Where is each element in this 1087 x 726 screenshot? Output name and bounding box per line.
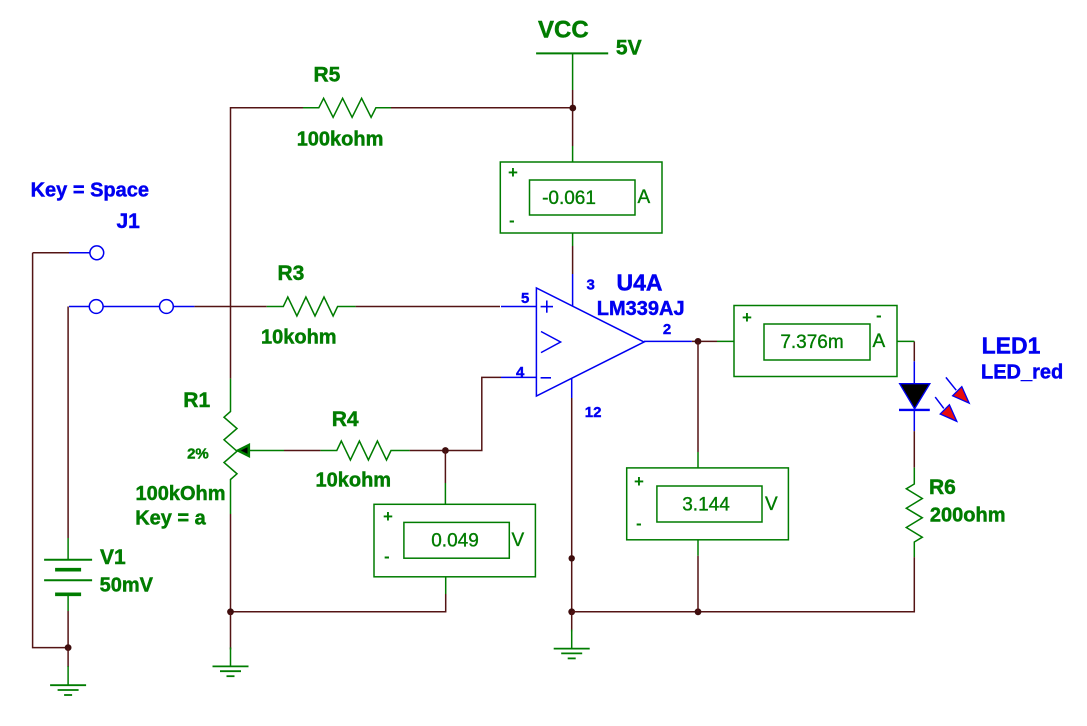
wire ammeter U2 right corner down to LED bbox=[913, 341, 915, 361]
svg-text:-: - bbox=[384, 547, 390, 566]
wire V1 bottom to ground junction bbox=[67, 611, 69, 648]
ammeter M1 -0.061 A bbox=[500, 146, 662, 246]
svg-text:R6: R6 bbox=[929, 476, 956, 499]
battery V1 50mV bbox=[44, 538, 154, 611]
svg-text:V: V bbox=[765, 494, 778, 515]
ammeter M4 7.376m A bbox=[717, 306, 914, 377]
wire LED cathode to R6 bbox=[913, 431, 915, 468]
svg-text:R5: R5 bbox=[314, 64, 341, 87]
wire J1 lower-left pole down to V1 bbox=[67, 307, 69, 539]
node V1 ground junction bbox=[65, 644, 72, 651]
svg-text:+: + bbox=[742, 308, 752, 327]
wire R4 node to pin 4 bbox=[445, 377, 501, 450]
svg-text:5: 5 bbox=[521, 290, 529, 307]
svg-text:12: 12 bbox=[585, 404, 602, 421]
wire J1 output to R3 bbox=[194, 306, 266, 308]
wire pin 12 down to ground bus bbox=[571, 398, 573, 612]
node bus ground junction bbox=[568, 608, 575, 615]
svg-text:4: 4 bbox=[516, 364, 525, 381]
op-amp U4A LM339AJ bbox=[501, 270, 692, 421]
wire ammeter U1 to pin 3 bbox=[572, 246, 574, 274]
svg-text:R1: R1 bbox=[183, 389, 210, 412]
power VCC symbol bbox=[536, 17, 641, 90]
wire R3 to op-amp pin 5 bbox=[356, 306, 500, 308]
wire R4 right to node bbox=[410, 450, 446, 452]
svg-text:-: - bbox=[636, 514, 642, 533]
svg-text:VCC: VCC bbox=[538, 17, 589, 44]
wire output node down to voltmeter M3 bbox=[697, 341, 699, 452]
svg-text:100kohm: 100kohm bbox=[297, 129, 384, 151]
svg-text:LED_red: LED_red bbox=[981, 361, 1063, 383]
wire node to ground G2 bbox=[230, 612, 232, 650]
wire voltmeter M2 minus to R1 ground node bbox=[231, 594, 446, 612]
wire junction to ground G1 bbox=[67, 648, 69, 667]
wire R5 right to VCC node bbox=[391, 107, 573, 109]
svg-text:LED1: LED1 bbox=[982, 332, 1041, 358]
wire rail R1 bottom to ground node bbox=[230, 514, 232, 612]
svg-text:R4: R4 bbox=[332, 408, 359, 431]
svg-text:2%: 2% bbox=[187, 445, 209, 462]
svg-text:V: V bbox=[512, 530, 525, 551]
svg-text:100kOhm: 100kOhm bbox=[136, 483, 226, 505]
resistor R4 10kohm bbox=[316, 408, 410, 491]
svg-text:V1: V1 bbox=[100, 546, 126, 569]
svg-text:+: + bbox=[383, 507, 393, 526]
wire bus junction to ground G3 bbox=[571, 612, 573, 632]
svg-text:J1: J1 bbox=[117, 210, 141, 233]
wire node down to voltmeter M2 bbox=[444, 451, 446, 484]
svg-text:5V: 5V bbox=[616, 36, 642, 59]
resistor R5 100kohm bbox=[297, 64, 391, 151]
svg-text:3.144: 3.144 bbox=[682, 495, 730, 516]
resistor R6 200ohm bbox=[906, 468, 1005, 557]
svg-text:LM339AJ: LM339AJ bbox=[597, 298, 685, 320]
svg-text:+: + bbox=[508, 163, 518, 182]
wire voltmeter M3 bottom to bus bbox=[697, 556, 699, 612]
wire R5 left to rail corner bbox=[231, 108, 304, 379]
svg-text:200ohm: 200ohm bbox=[930, 504, 1006, 526]
ground G3 below bus bbox=[554, 630, 590, 659]
svg-text:2: 2 bbox=[663, 321, 671, 338]
svg-text:50mV: 50mV bbox=[100, 575, 154, 597]
ground G2 below R1 node bbox=[213, 647, 249, 676]
wire J1 top pole to left rail bbox=[33, 252, 69, 254]
node R4 junction bbox=[442, 447, 449, 454]
svg-text:-: - bbox=[509, 211, 515, 230]
node VCC junction bbox=[569, 105, 576, 112]
svg-text:A: A bbox=[873, 331, 886, 352]
node output junction bbox=[695, 338, 702, 345]
wire VCC stem to ammeter U1 bbox=[572, 90, 574, 146]
svg-text:Key = Space: Key = Space bbox=[31, 180, 149, 202]
LED LED1 LED_red bbox=[899, 332, 1063, 431]
switch J1 Key=Space bbox=[31, 180, 195, 314]
node voltmeter M3 minus junction bbox=[695, 608, 702, 615]
svg-text:-: - bbox=[876, 306, 882, 325]
svg-text:3: 3 bbox=[587, 277, 595, 294]
potentiometer R1 100kOhm Key=a bbox=[135, 379, 284, 530]
node pin12 wire joint bbox=[569, 555, 575, 561]
voltmeter M2 0.049 V bbox=[374, 483, 535, 594]
svg-text:0.049: 0.049 bbox=[431, 531, 479, 552]
svg-text:A: A bbox=[638, 187, 651, 208]
svg-text:U4A: U4A bbox=[617, 270, 663, 296]
svg-text:+: + bbox=[634, 472, 644, 491]
resistor R3 10kohm bbox=[261, 262, 356, 349]
svg-text:10kohm: 10kohm bbox=[316, 469, 392, 491]
wire R6 bottom to bus bbox=[913, 557, 915, 612]
svg-text:10kohm: 10kohm bbox=[261, 326, 337, 348]
ground G1 below V1 bbox=[50, 666, 86, 695]
wire op-amp output to node bbox=[692, 340, 717, 342]
wire wiper to R4 bbox=[284, 450, 321, 452]
svg-text:-0.061: -0.061 bbox=[542, 188, 596, 209]
svg-text:R3: R3 bbox=[278, 262, 305, 285]
wire bottom bus right bbox=[572, 611, 915, 613]
voltmeter M3 3.144 V bbox=[627, 452, 789, 556]
node R1 ground junction bbox=[227, 608, 234, 615]
svg-text:7.376m: 7.376m bbox=[780, 332, 843, 353]
svg-text:Key = a: Key = a bbox=[135, 508, 206, 530]
wire left rail down to ground junction bbox=[33, 253, 69, 648]
